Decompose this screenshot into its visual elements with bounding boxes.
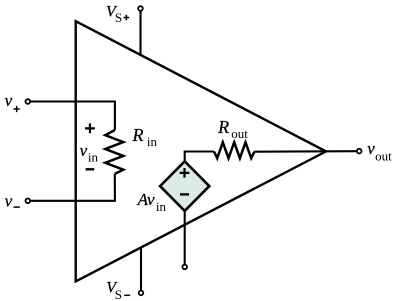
- svg-text:out: out: [231, 126, 248, 141]
- label vin: [80, 141, 99, 165]
- label - of vin: [86, 168, 95, 170]
- label - of source: [180, 193, 189, 195]
- svg-text:v: v: [5, 91, 13, 110]
- svg-text:S: S: [115, 10, 122, 25]
- op-amp U1 triangle outline: [76, 21, 326, 281]
- wire VS- vertical: [140, 248, 142, 290]
- label Rout: [217, 117, 248, 141]
- label VS+: [106, 4, 129, 26]
- wire Rin top lead: [114, 101, 116, 131]
- terminal v+: [26, 99, 31, 104]
- label vout: [367, 139, 392, 164]
- svg-text:in: in: [156, 199, 167, 214]
- label + of vin: [85, 123, 95, 133]
- svg-text:in: in: [147, 134, 158, 149]
- resistor Rin zigzag: [105, 130, 123, 174]
- label v- input: [5, 192, 20, 211]
- svg-text:v: v: [367, 139, 375, 158]
- wire VS+ vertical: [139, 12, 141, 56]
- terminal VS-: [139, 291, 144, 296]
- dependent source Avin diamond: [160, 161, 209, 211]
- label Rin: [132, 125, 158, 149]
- wire Rout to output terminal: [254, 150, 356, 153]
- terminal vout: [357, 149, 362, 154]
- wire Rin bottom lead: [114, 174, 116, 202]
- wire v+ horizontal: [31, 100, 115, 102]
- label Avin: [137, 190, 167, 214]
- svg-text:R: R: [217, 117, 229, 137]
- label VS-: [106, 280, 130, 301]
- terminal source ground: [182, 265, 187, 270]
- svg-text:in: in: [88, 150, 99, 165]
- wire v- horizontal: [31, 200, 115, 202]
- terminal VS+: [138, 6, 143, 11]
- label + of source: [180, 168, 190, 178]
- svg-text:Av: Av: [137, 190, 155, 209]
- svg-text:v: v: [5, 192, 13, 211]
- wire source bottom to terminal: [184, 211, 186, 264]
- svg-text:R: R: [132, 125, 144, 145]
- wire from source top to Rout: [185, 152, 214, 162]
- terminal v-: [26, 199, 31, 204]
- svg-text:v: v: [80, 141, 88, 160]
- label v+ input: [5, 91, 20, 112]
- svg-text:out: out: [375, 149, 392, 164]
- resistor Rout zigzag: [214, 142, 254, 158]
- svg-text:S: S: [115, 287, 122, 301]
